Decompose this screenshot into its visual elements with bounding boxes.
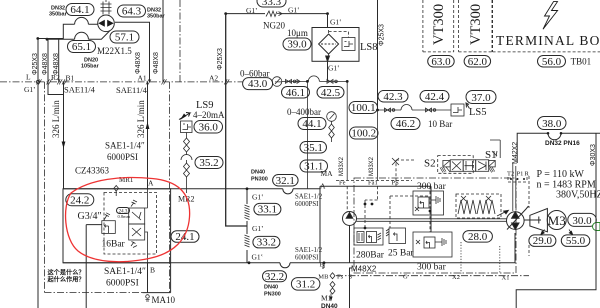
svg-text:DN40: DN40 (251, 170, 265, 176)
svg-text:DN40: DN40 (321, 303, 338, 308)
main pump variable circle (507, 206, 529, 230)
wire pump right line to A1 pipe (115, 22, 150, 82)
boundary dash-dot vertical x169.5 (169, 82, 171, 293)
callout balloon 100.2 (350, 127, 379, 140)
svg-text:SAE1-1/2: SAE1-1/2 (295, 247, 323, 254)
port label M1 (321, 294, 333, 303)
wire S1 riser (490, 140, 500, 158)
hose symbol 33.2 (245, 235, 250, 247)
wire pipe x58.7 (58, 39, 60, 82)
pressure gauge circle 43.0 (272, 77, 282, 87)
valve stack right (129, 200, 145, 248)
svg-text:M48X2: M48X2 (351, 265, 377, 274)
svg-text:X2: X2 (452, 274, 460, 281)
LS9 cable arrow symbol (179, 113, 190, 121)
wire G1 top line (224, 12, 329, 15)
callout balloon 38.0 (538, 117, 567, 131)
green balloon edge cut (593, 223, 600, 231)
svg-text:G1‛: G1‛ (246, 6, 258, 15)
hose symbol 33.1 (245, 205, 250, 220)
callout balloon 32.1 (273, 175, 299, 187)
svg-text:300 bar: 300 bar (417, 182, 447, 192)
svg-text:Fe: Fe (339, 180, 346, 187)
svg-text:Fs: Fs (337, 274, 344, 281)
wire pump left top line with 64.1 notch (63, 17, 98, 39)
motor hatch marks above pump P1 (101, 0, 112, 15)
svg-text:44.1: 44.1 (302, 118, 321, 130)
LS5 switch box (451, 103, 470, 116)
svg-text:TERMINAL BO: TERMINAL BO (496, 33, 600, 48)
callout balloon 28.0 (463, 231, 493, 243)
test point MA10 symbol (146, 295, 150, 301)
svg-text:LS8: LS8 (360, 42, 378, 53)
S2 dashed box (438, 156, 474, 174)
directional valve S2 body (450, 160, 489, 172)
svg-text:A: A (148, 179, 154, 188)
wire filter outlet (326, 56, 330, 81)
svg-text:37.0: 37.0 (471, 92, 491, 104)
svg-text:L: L (26, 73, 31, 82)
svg-text:G1‛: G1‛ (252, 193, 264, 202)
dotted wire X2 (460, 242, 462, 274)
svg-text:33.3: 33.3 (262, 0, 282, 8)
pilot line Fe Fa1 PS dash (336, 180, 412, 182)
svg-text:46.2: 46.2 (396, 118, 415, 130)
svg-text:S2: S2 (424, 158, 436, 170)
internal pilot dashes in block (347, 160, 430, 232)
wire valve to A riser (145, 189, 148, 263)
svg-text:G: G (403, 274, 408, 281)
wire A line y188.8 with 32.1 notch (63, 189, 320, 194)
svg-text:64.3: 64.3 (122, 6, 142, 18)
wire riser x377.5 Fa1 (377, 110, 379, 181)
relief valve 300bar bottom box (413, 232, 452, 257)
svg-text:24.2: 24.2 (70, 194, 89, 206)
svg-text:33.2: 33.2 (257, 237, 276, 249)
svg-text:DN40: DN40 (264, 285, 278, 291)
svg-text:300 bar: 300 bar (417, 263, 447, 273)
callout balloon 24.2 (66, 194, 94, 207)
svg-text:CZ43363: CZ43363 (75, 166, 110, 176)
clogging indicator box (342, 38, 355, 51)
svg-text:SAE1-1/4″: SAE1-1/4″ (105, 141, 145, 151)
svg-text:32.1: 32.1 (276, 175, 295, 187)
svg-text:31.2: 31.2 (296, 279, 315, 291)
control springs (458, 196, 495, 214)
MR2 column arc and diamonds (181, 152, 192, 193)
callout balloon 62.0 (464, 56, 491, 68)
callout balloon 100.1 (349, 102, 378, 115)
svg-text:M42X2: M42X2 (512, 142, 519, 164)
blue annotation text (47, 269, 85, 284)
callout balloon 64.1 (66, 4, 94, 17)
wire B1 pipe x63.5 down to valve box (63, 82, 65, 189)
svg-text:25 Bar: 25 Bar (388, 249, 414, 259)
callout balloon 35.2 (195, 157, 223, 170)
cooler box top with notch (517, 132, 600, 163)
callout balloon 39.0 (283, 38, 311, 51)
callout balloon 32.2 (263, 271, 287, 283)
wire M42X2 pipe down to pump (513, 163, 516, 211)
svg-text:B: B (150, 266, 155, 275)
callout balloon 46.1 (282, 87, 310, 99)
svg-text:G1‛: G1‛ (24, 85, 36, 94)
servo arrow to pump (497, 210, 509, 216)
svg-text:Fa1: Fa1 (368, 180, 378, 187)
svg-text:MA10: MA10 (152, 295, 176, 305)
filter unit box (312, 28, 359, 62)
leader arrow 55.0 (569, 230, 574, 236)
boundary dash-dot vertical x180 (179, 0, 181, 82)
pressure transmitter box LS9 (181, 121, 193, 133)
svg-text:63.0: 63.0 (431, 56, 451, 68)
svg-text:Φ48X8: Φ48X8 (135, 52, 142, 74)
wire L-port horizontal stub (36, 37, 63, 40)
svg-text:10 Bar: 10 Bar (428, 119, 452, 129)
svg-text:G1‛: G1‛ (328, 64, 340, 73)
label DN40 PN300 bottom (264, 285, 281, 298)
vent diamond above valve (114, 186, 119, 197)
callout balloon 42.4 (420, 91, 449, 103)
boundary dash-dot top left horizontal (0, 81, 283, 83)
callout balloon 42.5 (317, 87, 344, 99)
svg-text:SAE11/4: SAE11/4 (64, 85, 96, 95)
pump block top line (320, 186, 431, 262)
small dashed box under T2 P1 R (508, 177, 527, 182)
svg-text:39.0: 39.0 (287, 39, 307, 51)
svg-text:PN300: PN300 (251, 177, 268, 183)
svg-text:65.1: 65.1 (72, 41, 91, 53)
svg-text:42.3: 42.3 (383, 91, 403, 103)
check diamond Fs (330, 273, 335, 294)
drive shaft double line (357, 219, 507, 222)
callout balloon 37.0 (466, 91, 496, 105)
svg-text:Φ25X3: Φ25X3 (379, 24, 386, 46)
value label DN20 105bar (81, 58, 100, 70)
callout balloon 31.1 (300, 160, 328, 173)
callout balloon 33.3 (257, 0, 286, 8)
svg-text:PN300: PN300 (264, 292, 281, 298)
wire riser x347.2 Fe (346, 81, 348, 180)
svg-text:SAE1-1/2: SAE1-1/2 (295, 194, 323, 201)
svg-text:35.2: 35.2 (199, 157, 218, 169)
svg-text:SAE11/4: SAE11/4 (116, 85, 148, 95)
svg-text:56.0: 56.0 (542, 56, 562, 68)
callout balloon 56.0 (538, 56, 566, 68)
svg-text:P1: P1 (517, 171, 524, 178)
svg-text:6000PSI: 6000PSI (106, 279, 139, 289)
svg-text:42.4: 42.4 (425, 91, 445, 103)
svg-text:24.1: 24.1 (175, 231, 194, 243)
svg-text:32.2: 32.2 (265, 271, 284, 283)
wire riser x307.4 (306, 81, 308, 188)
flow arrow up right (146, 122, 150, 129)
wire LS5 line y110 with couplers (376, 105, 451, 112)
wire S suction line (322, 263, 352, 308)
svg-text:43.0: 43.0 (248, 78, 268, 90)
svg-text:TB01: TB01 (571, 57, 592, 67)
callout balloon 31.2 (291, 278, 320, 291)
check diamonds under gauge 44.1 (329, 121, 335, 142)
svg-text:380V,50HZ: 380V,50HZ (556, 190, 600, 201)
VT300 box 2 (459, 0, 492, 52)
pilot dashes in filter (329, 30, 349, 59)
svg-text:35.1: 35.1 (304, 142, 323, 154)
svg-text:100.1: 100.1 (351, 102, 376, 114)
svg-text:M33X2: M33X2 (339, 156, 345, 176)
svg-text:36.0: 36.0 (199, 122, 219, 134)
svg-text:46.1: 46.1 (286, 87, 305, 99)
callout balloon 30.0 (568, 213, 597, 226)
port label SAE1-1/4 bottom (104, 267, 146, 289)
svg-text:326 L/min: 326 L/min (51, 100, 61, 138)
svg-text:0–400bar: 0–400bar (287, 107, 321, 117)
valve 25Bar box (386, 228, 406, 244)
svg-text:38.0: 38.0 (542, 118, 562, 130)
svg-text:42.5: 42.5 (321, 87, 341, 99)
svg-text:LS5: LS5 (469, 107, 487, 118)
callout balloon 33.1 (254, 203, 281, 215)
swashplate control dashed box (456, 194, 501, 218)
svg-text:PS: PS (392, 180, 400, 187)
svg-text:4–20mA: 4–20mA (193, 110, 225, 120)
reducing valve 16Bar box (102, 213, 116, 234)
svg-text:VT300: VT300 (468, 4, 484, 45)
svg-text:MA: MA (321, 169, 334, 178)
svg-text:30.0: 30.0 (572, 215, 592, 227)
svg-text:100.2: 100.2 (351, 128, 376, 140)
wire gauge line y81.4 with couplers and crossover (282, 76, 349, 83)
svg-text:57.1: 57.1 (115, 32, 134, 44)
value label DN32 350bar left (49, 6, 68, 18)
filter diamond element (319, 34, 339, 54)
svg-text:A2: A2 (209, 74, 218, 83)
port box under R2 B1 (48, 82, 64, 95)
callout balloon 65.1 (68, 41, 96, 54)
relief valve 300bar top box (413, 191, 444, 215)
svg-text:280Bar: 280Bar (356, 251, 385, 261)
hose symbol on G1 line (266, 11, 282, 17)
svg-text:0–60bar: 0–60bar (240, 69, 270, 79)
wire A1 pipe down to valve A port (147, 82, 149, 189)
port label SAE1-1/4 6000PSI mid (105, 141, 145, 163)
svg-text:28.0: 28.0 (468, 231, 488, 243)
VT300 box 1 (423, 0, 454, 52)
svg-text:M22X1.5: M22X1.5 (97, 46, 132, 56)
junction dots block (364, 203, 432, 230)
pressure gauge 44.1 (327, 112, 337, 122)
svg-text:62.0: 62.0 (468, 56, 488, 68)
boundary dash motor area (528, 176, 530, 256)
svg-text:G1‛: G1‛ (330, 18, 342, 27)
coupling bell housing (524, 209, 547, 232)
svg-text:起什么作用？: 起什么作用？ (47, 276, 85, 284)
svg-text:NG20: NG20 (263, 21, 285, 31)
tank boundary dashes bottom left (45, 292, 144, 294)
callout balloon 44.1 (298, 118, 326, 131)
svg-text:VT300: VT300 (431, 4, 447, 45)
port label SAE1-1/2 6000PSI lower (295, 247, 323, 262)
wire 16Bar valve inlet from left (86, 225, 102, 308)
svg-text:SAE1-1/4″: SAE1-1/4″ (104, 267, 146, 277)
dotted wire X1 (499, 246, 501, 274)
value label DN32 350bar right (147, 8, 166, 20)
cooler right edge and staircase (516, 133, 596, 308)
svg-text:MB: MB (318, 274, 329, 281)
pump unit dash-dot enclosure (354, 178, 516, 273)
svg-text:6000PSI: 6000PSI (295, 255, 319, 262)
wire below valve box to MA10 (143, 263, 171, 293)
svg-text:这个是什么？: 这个是什么？ (48, 269, 85, 277)
pipe phi25X3 right riser (377, 0, 379, 110)
callout balloon 42.3 (378, 91, 408, 103)
X mark pilot (392, 158, 399, 165)
label DN40 PN300 top (251, 170, 268, 183)
terminal box dashed boundary (493, 0, 600, 52)
hydraulic motor P1 circle (98, 15, 115, 32)
svg-text:M3: M3 (548, 213, 566, 228)
callout balloon 55.0 (561, 235, 590, 247)
svg-text:B1: B1 (66, 74, 75, 83)
svg-text:350bar: 350bar (49, 12, 68, 18)
solenoid boxes S2 (443, 160, 495, 167)
wire pipe x48 to R2 (47, 39, 49, 82)
valve 280Bar box (354, 228, 383, 245)
callout balloon 43.0 (243, 78, 273, 91)
wire pipe x163 from top (162, 0, 164, 82)
wire filter inlet (327, 14, 329, 28)
callout balloon 57.1 (110, 31, 139, 44)
svg-text:Φ48X8: Φ48X8 (153, 52, 160, 74)
callout balloon 64.3 (118, 5, 146, 18)
callout balloon 36.0 (194, 121, 223, 134)
mini callout 24.3 (117, 208, 131, 220)
callout balloon 63.0 (428, 56, 455, 68)
electric motor M3 (547, 211, 566, 230)
callout balloon 29.0 (529, 235, 556, 247)
boundary dash-dot bottom of pump unit (336, 275, 529, 277)
dashed box valve internals (104, 193, 157, 255)
wire G1 vertical x225.7 (226, 14, 247, 226)
port tick marks on boundary (36, 79, 229, 84)
svg-text:6000PSI: 6000PSI (295, 201, 319, 208)
red freehand circle (66, 178, 190, 262)
leader arrow 29.0 (540, 230, 545, 236)
svg-text:G3/4″: G3/4″ (78, 211, 102, 222)
svg-text:G1‛: G1‛ (252, 253, 264, 262)
callout balloon 24.1 (171, 231, 199, 243)
svg-text:6000PSI: 6000PSI (107, 152, 138, 162)
wire G1 riser x247 with hose symbols (246, 187, 249, 262)
flow arrow down left (62, 130, 66, 149)
svg-text:S1: S1 (485, 149, 497, 161)
boundary dash-dot vertical x44.5 (44, 82, 46, 293)
svg-text:105bar: 105bar (81, 64, 100, 70)
svg-text:G1‛: G1‛ (288, 6, 300, 15)
wire 65.1 line with notch and diagonal to pump (46, 31, 110, 41)
svg-text:16Bar: 16Bar (102, 240, 126, 250)
svg-text:33.1: 33.1 (258, 204, 277, 216)
svg-text:55.0: 55.0 (566, 235, 586, 247)
wire B line y262.8 with 32.2 notch (63, 233, 515, 268)
svg-text:P = 110 kW: P = 110 kW (537, 169, 585, 180)
boost pump circle (343, 212, 357, 263)
svg-text:R2: R2 (51, 73, 60, 82)
callout balloon 33.2 (253, 236, 280, 248)
svg-text:10μm: 10μm (287, 28, 308, 38)
port labels T2 P1 R (507, 171, 530, 178)
lightning bolt symbol (543, 2, 558, 30)
callout balloon 35.1 (300, 142, 327, 154)
svg-text:64.1: 64.1 (70, 4, 89, 16)
wire suction pipe L x38 (37, 39, 39, 308)
port label SAE1-1/2 6000PSI upper (295, 194, 323, 209)
svg-text:326 L/min: 326 L/min (136, 100, 146, 138)
valve block CZ43363 solid box (63, 189, 171, 263)
svg-text:Φ25X3: Φ25X3 (217, 48, 224, 70)
callout balloon 46.2 (391, 118, 420, 131)
svg-text:M33X2: M33X2 (369, 156, 375, 176)
svg-text:DN32 PN16: DN32 PN16 (545, 140, 580, 147)
springs S2 (440, 167, 495, 173)
svg-text:29.0: 29.0 (533, 235, 553, 247)
svg-text:G1‛: G1‛ (252, 224, 264, 233)
check diamonds under LS9 (184, 133, 190, 153)
